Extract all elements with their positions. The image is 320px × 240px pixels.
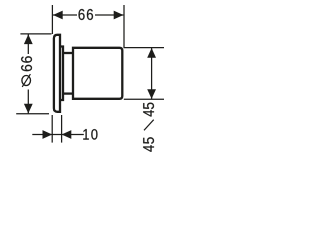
sleeve top edge <box>63 52 73 54</box>
extension line bottom of dimension 45/45 (knob bottom tangent) <box>124 98 164 100</box>
dimension line 10 middle segment <box>52 134 61 136</box>
extension line right of dimension 66 (knob front face) <box>123 5 125 47</box>
label 45/45: slash (rotated) <box>144 120 154 131</box>
label 45/45: digit 5 lower (rotated) <box>143 137 154 143</box>
extension line left of dimension 10 <box>51 115 53 143</box>
label 45/45: digit 5 top (rotated) <box>143 103 154 109</box>
flange ring between plate and sleeve <box>60 47 63 101</box>
arrowhead down of dimension Ø66 <box>24 104 33 114</box>
arrowhead down of dimension 45/45 <box>147 89 156 99</box>
dimension line Ø66 upper segment <box>27 34 29 54</box>
arrowhead right of dimension 66 <box>114 11 124 20</box>
label Ø66: middle digit 6 (rotated) <box>21 65 32 71</box>
arrowhead up of dimension 45/45 <box>147 48 156 58</box>
label 66: first digit 6 <box>79 9 85 20</box>
arrowhead up of dimension Ø66 <box>24 34 33 44</box>
label 10: digit 0 <box>91 129 97 139</box>
handle knob (rounded front corners) <box>73 48 122 99</box>
arrowhead pointing left at dimension 10 <box>62 130 72 139</box>
label Ø66: diameter symbol circle (rotated) <box>22 76 31 86</box>
label 45/45: digit 4 bottom (rotated) <box>143 145 154 151</box>
dimension line 66 left segment <box>53 14 77 16</box>
sleeve bottom edge <box>63 92 73 94</box>
dimension line 45/45 <box>151 48 153 99</box>
label 10: digit 1 <box>83 129 89 139</box>
label Ø66: diameter symbol slash (rotated) <box>22 74 30 87</box>
extension line right of dimension 10 <box>61 115 63 143</box>
extension line left of dimension 66 (wall face) <box>51 5 53 34</box>
dimension line 10 left tail <box>32 134 52 136</box>
dimension line Ø66 lower segment <box>27 90 29 114</box>
extension line top of dimension 45/45 (knob top tangent) <box>123 47 164 49</box>
label 66: second digit 6 <box>87 9 93 20</box>
extension line top of dimension Ø66 (plate top tangent) <box>20 33 51 35</box>
arrowhead pointing right at dimension 10 <box>43 130 53 139</box>
label Ø66: top digit 6 (rotated) <box>21 56 32 62</box>
dimension line 66 right segment <box>95 14 123 16</box>
label 45/45: digit 4 upper (rotated) <box>143 110 154 116</box>
extension line bottom of dimension Ø66 (plate bottom tangent) <box>16 113 49 115</box>
dimension line 10 right tail <box>62 134 84 136</box>
arrowhead left of dimension 66 <box>53 11 63 20</box>
escutcheon plate (side view, rounded wall-side corners) <box>54 35 60 112</box>
